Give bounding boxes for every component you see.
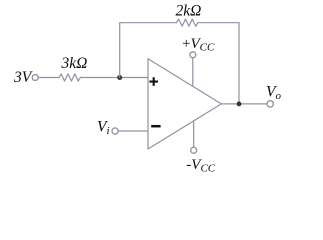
resistor R2 2k zigzag <box>177 19 198 26</box>
resistor R1 3k zigzag <box>59 74 80 81</box>
svg-text:+VCC: +VCC <box>182 36 215 54</box>
terminal +VCC <box>190 52 196 58</box>
op-amp minus input sign <box>151 125 160 128</box>
svg-text:3V: 3V <box>13 69 33 86</box>
wire R1 to op-amp + input <box>80 77 148 79</box>
terminal -VCC <box>191 147 197 153</box>
op-amp plus input sign <box>149 77 158 86</box>
svg-text:2kΩ: 2kΩ <box>176 3 202 20</box>
op-amp U1 triangle <box>148 59 221 149</box>
svg-text:Vo: Vo <box>266 84 281 103</box>
junction node A dot <box>117 75 122 80</box>
wire feedback right vertical <box>238 23 240 104</box>
wire top left to R2 <box>120 22 177 24</box>
svg-text:Vi: Vi <box>97 119 110 138</box>
terminal 3V input <box>32 75 38 81</box>
wire 3V terminal to R1 <box>38 77 59 79</box>
wire Vi to op-amp - input <box>118 130 148 132</box>
svg-text:-VCC: -VCC <box>186 157 216 175</box>
junction node output dot <box>237 102 242 107</box>
wire feedback left vertical <box>119 23 121 78</box>
svg-text:3kΩ: 3kΩ <box>61 55 88 72</box>
wire -VCC stub <box>193 121 195 147</box>
terminal Vo output <box>267 101 273 107</box>
wire +VCC stub <box>192 58 194 86</box>
wire op-amp output <box>221 103 267 105</box>
terminal Vi input <box>112 128 118 134</box>
wire R2 to top right corner <box>198 22 239 24</box>
